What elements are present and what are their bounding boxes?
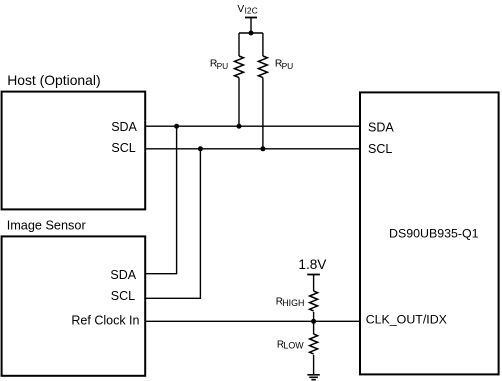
resistor RPU left: [235, 56, 244, 78]
svg-text:HIGH: HIGH: [282, 298, 304, 308]
host box: [2, 92, 146, 210]
wire split rail: [239, 32, 263, 34]
svg-text:SDA: SDA: [368, 121, 394, 135]
svg-text:SCL: SCL: [111, 289, 135, 303]
svg-text:I2C: I2C: [245, 6, 258, 16]
svg-text:CLK_OUT/IDX: CLK_OUT/IDX: [366, 312, 447, 326]
node junction divider on CLK line: [311, 319, 316, 324]
wire Ref Clock In to CLK_OUT/IDX: [145, 320, 360, 322]
svg-text:SDA: SDA: [110, 268, 136, 282]
wire left RPU top lead: [238, 33, 240, 56]
wire SDA bus (host to serializer): [146, 125, 360, 127]
wire right RPU bottom lead: [262, 78, 264, 149]
ground symbol: [307, 374, 319, 376]
wire SCL bus (host to serializer): [146, 148, 360, 150]
serializer box U1 DS90UB935-Q1: [360, 92, 499, 374]
node junction at VI2C split: [249, 31, 254, 36]
svg-text:Image Sensor: Image Sensor: [7, 218, 87, 232]
node junction sensor SDA on SDA bus: [174, 124, 179, 129]
wire VI2C down to split: [250, 18, 252, 34]
wire sensor SDA stub: [145, 126, 177, 274]
resistor RLOW: [310, 334, 318, 354]
wire 1.8V down to RHIGH: [313, 275, 315, 292]
wire RHIGH bottom lead: [313, 312, 315, 321]
svg-text:PU: PU: [217, 61, 229, 71]
svg-text:DS90UB935-Q1: DS90UB935-Q1: [389, 227, 479, 241]
svg-text:SDA: SDA: [111, 120, 137, 134]
svg-text:SCL: SCL: [368, 142, 392, 156]
power VI2C bar symbol: [245, 17, 257, 19]
svg-text:Host (Optional): Host (Optional): [7, 72, 100, 88]
svg-text:1.8V: 1.8V: [298, 257, 326, 272]
resistor RPU right: [258, 56, 267, 78]
svg-text:SCL: SCL: [111, 141, 135, 155]
power 1.8V bar symbol: [307, 274, 320, 276]
wire sensor SCL stub: [145, 149, 200, 298]
wire left RPU bottom lead: [238, 78, 240, 127]
wire right RPU top lead: [262, 33, 264, 56]
node junction sensor SCL on SCL bus: [198, 146, 203, 151]
svg-text:LOW: LOW: [283, 341, 304, 351]
svg-text:Ref Clock In: Ref Clock In: [71, 314, 139, 328]
wire RLOW top lead: [313, 321, 315, 334]
node junction left RPU on SDA bus: [237, 124, 242, 129]
svg-text:PU: PU: [282, 61, 294, 71]
svg-text:V: V: [237, 4, 244, 15]
wire RLOW bottom lead: [313, 355, 315, 375]
resistor RHIGH: [310, 291, 318, 311]
image sensor box: [2, 236, 146, 375]
node junction right RPU on SCL bus: [260, 146, 265, 151]
